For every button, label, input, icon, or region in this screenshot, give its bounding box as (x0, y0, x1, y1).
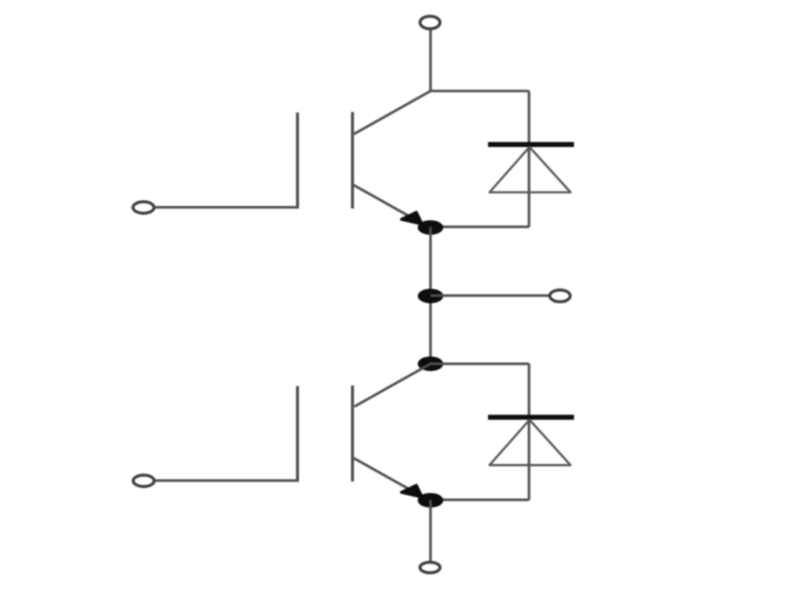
terminal G1 (upper gate terminal) (133, 202, 154, 213)
arrowhead (emitter Q2) (402, 485, 423, 497)
wire (top terminal to collector node) (429, 30, 432, 91)
junction dot (Q2 collector node) (418, 357, 444, 372)
diode D1 cathode bar (488, 142, 574, 147)
wire (output lead) (431, 294, 550, 297)
terminal E2 (bottom emitter terminal) (420, 562, 440, 573)
wire (gate G2 lead) (154, 479, 299, 482)
node collector Q1 / wire to diode D1 cathode (354, 91, 529, 134)
wire (diode D2 anode to emitter node) (431, 498, 530, 501)
transistor Q1 (upper IGBT) body bar (351, 112, 354, 209)
diode D2 branch wire (cathode side vertical) (528, 364, 531, 500)
terminal OUT (midpoint output terminal) (550, 290, 570, 302)
wire (emitter Q1 diagonal) (354, 185, 425, 225)
diode D2 anode triangle (490, 420, 571, 465)
node collector Q2 / wire to diode D2 cathode (355, 364, 530, 407)
wire (gate G1 lead) (154, 206, 299, 209)
wire (midpoint bus) (429, 227, 432, 364)
junction dot (Q1 emitter node) (418, 220, 444, 235)
arrowhead (emitter Q1) (402, 212, 423, 224)
terminal C1 (top collector terminal) (420, 16, 440, 29)
diode D2 cathode bar (488, 415, 574, 420)
junction dot (output node) (418, 289, 444, 304)
terminal G2 (lower gate terminal) (133, 475, 154, 486)
wire (emitter Q2 diagonal) (354, 458, 425, 498)
junction dot (Q2 emitter node) (418, 493, 444, 508)
diode D1 anode triangle (490, 147, 571, 192)
wire (emitter node to bottom terminal) (429, 500, 432, 561)
wire (diode D1 anode to emitter node) (431, 226, 530, 229)
transistor Q1 gate bar (296, 113, 299, 209)
transistor Q2 (lower IGBT) body bar (351, 386, 354, 482)
diode D1 branch wire (cathode side vertical) (528, 91, 531, 227)
transistor Q2 gate bar (296, 386, 299, 482)
